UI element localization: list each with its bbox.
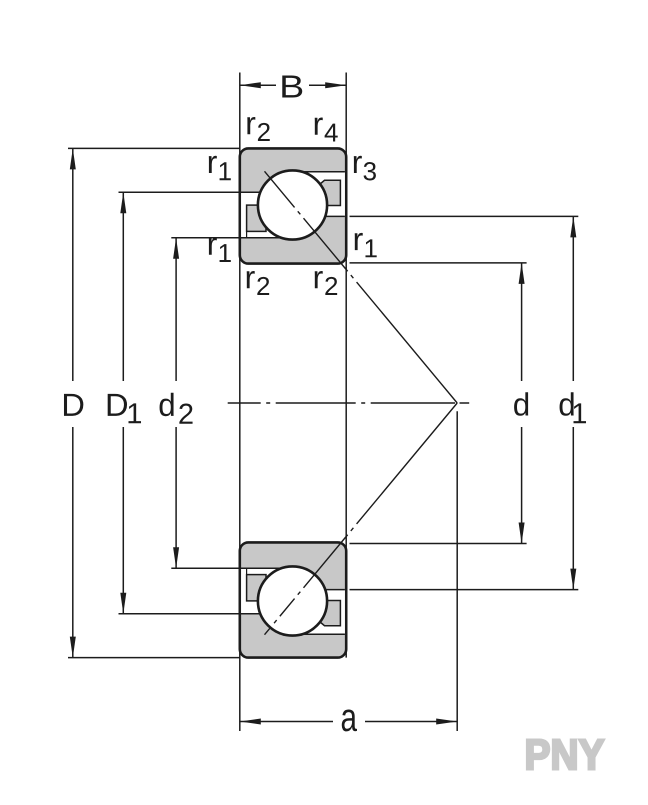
extension line d bottom [350, 543, 527, 545]
dimension line B [240, 84, 276, 86]
label r2 bottom-right [315, 271, 323, 288]
label r3 upper-right [354, 156, 362, 173]
dimension line d1 [572, 216, 574, 381]
label a [342, 709, 357, 731]
label r1 lower-left [209, 238, 217, 255]
extension line D1 bottom [119, 613, 242, 615]
label B [282, 75, 302, 97]
extension line d2 top [171, 237, 241, 239]
dimension line D1 [122, 192, 124, 381]
extension line D1 top [119, 191, 242, 193]
label d [514, 392, 528, 416]
dimension line d2 [175, 238, 177, 381]
label D1 [108, 394, 127, 416]
bearing top [240, 148, 346, 263]
dimension line d [521, 263, 523, 381]
label d1 [560, 392, 574, 416]
contact angle line top [265, 171, 458, 403]
extension line d1 top [350, 215, 579, 217]
label r1 upper-left [209, 156, 217, 173]
center axis line [228, 402, 471, 404]
extension line right face vertical [345, 73, 347, 658]
extension line d2 bottom [171, 567, 241, 569]
contact angle line bottom [265, 403, 458, 635]
watermark PNY [527, 740, 604, 770]
extension line D bottom [68, 657, 240, 659]
extension line d top [350, 262, 527, 264]
extension line apex vertical [456, 411, 458, 731]
label r2 bottom-left [247, 271, 255, 288]
dimension line D [72, 148, 74, 381]
bearing bottom (mirrored) [240, 542, 346, 657]
extension line d1 bottom [350, 589, 579, 591]
label d2 [160, 393, 174, 417]
label r4 top-right [315, 117, 323, 134]
extension line left face vertical [239, 73, 241, 732]
label D [64, 394, 83, 416]
extension line D top [68, 147, 240, 149]
label r1 lower-right [355, 233, 363, 250]
label r2 top-left [247, 117, 255, 134]
dimension line a [240, 721, 333, 723]
